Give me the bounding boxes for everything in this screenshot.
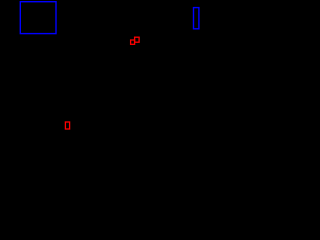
blue rectangle right edge [194, 8, 199, 29]
red rectangle bottom [65, 122, 69, 129]
red small square (lower-left of pair) [131, 40, 135, 44]
blue square top-left [20, 2, 56, 34]
red large square (upper-right of pair) [135, 37, 140, 42]
